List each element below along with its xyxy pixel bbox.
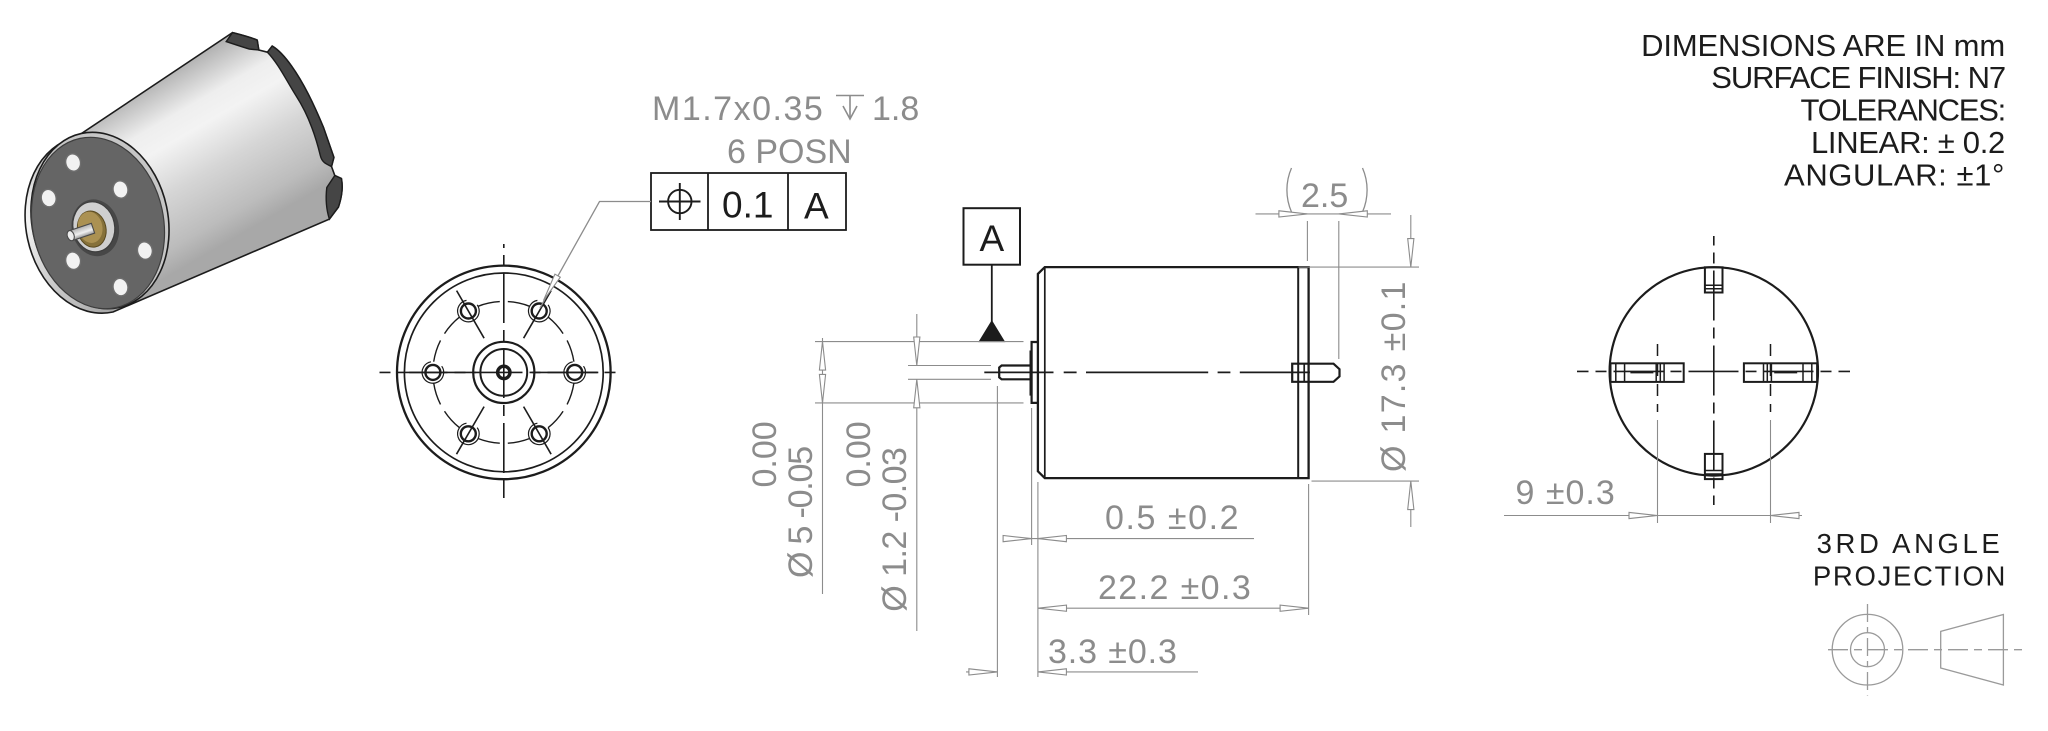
terminal pin <box>1292 364 1339 382</box>
dimension dia 1.2 0/-0.03 <box>840 314 991 631</box>
front bearing boss <box>1032 342 1038 403</box>
mounting holes M1.7 x6 <box>422 300 585 444</box>
shaft <box>66 223 95 241</box>
front view horizontal centerline <box>380 371 616 373</box>
svg-text:3RD ANGLE: 3RD ANGLE <box>1817 528 2004 559</box>
front rim (light ring) <box>15 119 185 321</box>
dimension (2.5) terminal length <box>1256 168 1392 359</box>
terminal slot centerlines <box>1657 344 1659 412</box>
left terminal tab <box>1611 363 1684 382</box>
svg-text:LINEAR: ± 0.2: LINEAR: ± 0.2 <box>1811 125 2005 160</box>
svg-text:Ø 5 -0.05: Ø 5 -0.05 <box>782 447 820 578</box>
dimension 0.5 +-0.2 <box>1003 408 1254 545</box>
top tab <box>1705 267 1723 292</box>
dimension dia 17.3 +-0.1 <box>1299 215 1420 527</box>
dimension 3.3 +-0.3 <box>966 386 1198 677</box>
bottom tab <box>1705 454 1723 479</box>
front view outer circle <box>397 266 611 480</box>
rear crimp ring band 2 (top notch to right notch) <box>267 46 334 166</box>
svg-text:ANGULAR: ±1°: ANGULAR: ±1° <box>1784 158 2005 193</box>
rear view vertical centerline <box>1713 236 1715 505</box>
hub ring <box>68 198 119 256</box>
hub circle outer <box>473 342 534 403</box>
shaft <box>999 366 1031 380</box>
svg-text:22.2 ±0.3: 22.2 ±0.3 <box>1098 569 1252 607</box>
svg-text:DIMENSIONS ARE IN mm: DIMENSIONS ARE IN mm <box>1641 28 2005 63</box>
front face (dark) <box>16 125 180 321</box>
shaft circle <box>498 366 510 378</box>
left chamfer inner line <box>1044 267 1046 478</box>
3rd angle projection symbol <box>1828 604 2023 696</box>
right terminal tab <box>1744 363 1817 382</box>
radial spokes through holes <box>409 291 598 455</box>
svg-text:TOLERANCES:: TOLERANCES: <box>1801 93 2005 128</box>
svg-text:0.00: 0.00 <box>840 421 878 487</box>
svg-text:Ø 17.3 ±0.1: Ø 17.3 ±0.1 <box>1375 280 1413 472</box>
bolt circle (dashed) <box>434 302 574 444</box>
face holes <box>40 152 154 297</box>
svg-text:3.3 ±0.3: 3.3 ±0.3 <box>1048 633 1178 671</box>
motor body cylinder with rear cap silhouette <box>25 33 342 314</box>
feature control frame: position 0.1 A <box>651 173 846 230</box>
svg-text:1.8: 1.8 <box>872 90 919 128</box>
svg-text:Ø 1.2 -0.03: Ø 1.2 -0.03 <box>876 448 914 612</box>
svg-text:SURFACE FINISH: N7: SURFACE FINISH: N7 <box>1711 60 2005 95</box>
leader line from FCF to hole <box>540 202 651 309</box>
rear view horizontal centerline <box>1577 370 1850 372</box>
hub hole (dark ring) <box>66 195 124 261</box>
svg-text:6 POSN: 6 POSN <box>727 133 852 171</box>
dimension 9 +-0.3 <box>1504 420 1802 523</box>
rear crimp ring band 3 (after right notch) <box>326 176 342 220</box>
side view centerline <box>984 371 1310 373</box>
svg-text:9 ±0.3: 9 ±0.3 <box>1516 474 1616 512</box>
dimension dia 5 0/-0.05 <box>746 338 1024 594</box>
end cap line <box>1297 267 1299 478</box>
svg-text:0.00: 0.00 <box>746 421 784 487</box>
svg-text:0.5 ±0.2: 0.5 ±0.2 <box>1105 499 1240 537</box>
front view inner circle <box>404 273 603 472</box>
dimension 22.2 +-0.3 <box>1038 484 1309 615</box>
svg-text:PROJECTION: PROJECTION <box>1813 561 2007 592</box>
rear crimp ring band 1 (before top notch) <box>226 33 259 50</box>
bearing (gold) <box>74 208 109 250</box>
rear view circle <box>1610 267 1818 475</box>
svg-text:A: A <box>804 185 829 226</box>
svg-text:M1.7x0.35: M1.7x0.35 <box>652 90 824 128</box>
motor body outline with chamfered left corners <box>1038 267 1309 478</box>
svg-text:2.5: 2.5 <box>1301 177 1348 215</box>
svg-text:A: A <box>980 218 1005 259</box>
thread callout M1.7x0.35 depth 1.8, 6 POSN <box>652 90 919 171</box>
front view vertical centerline <box>503 244 505 498</box>
datum A flag <box>964 208 1021 341</box>
svg-text:0.1: 0.1 <box>722 184 773 225</box>
hub circle inner <box>480 349 527 396</box>
position symbol <box>659 183 701 220</box>
